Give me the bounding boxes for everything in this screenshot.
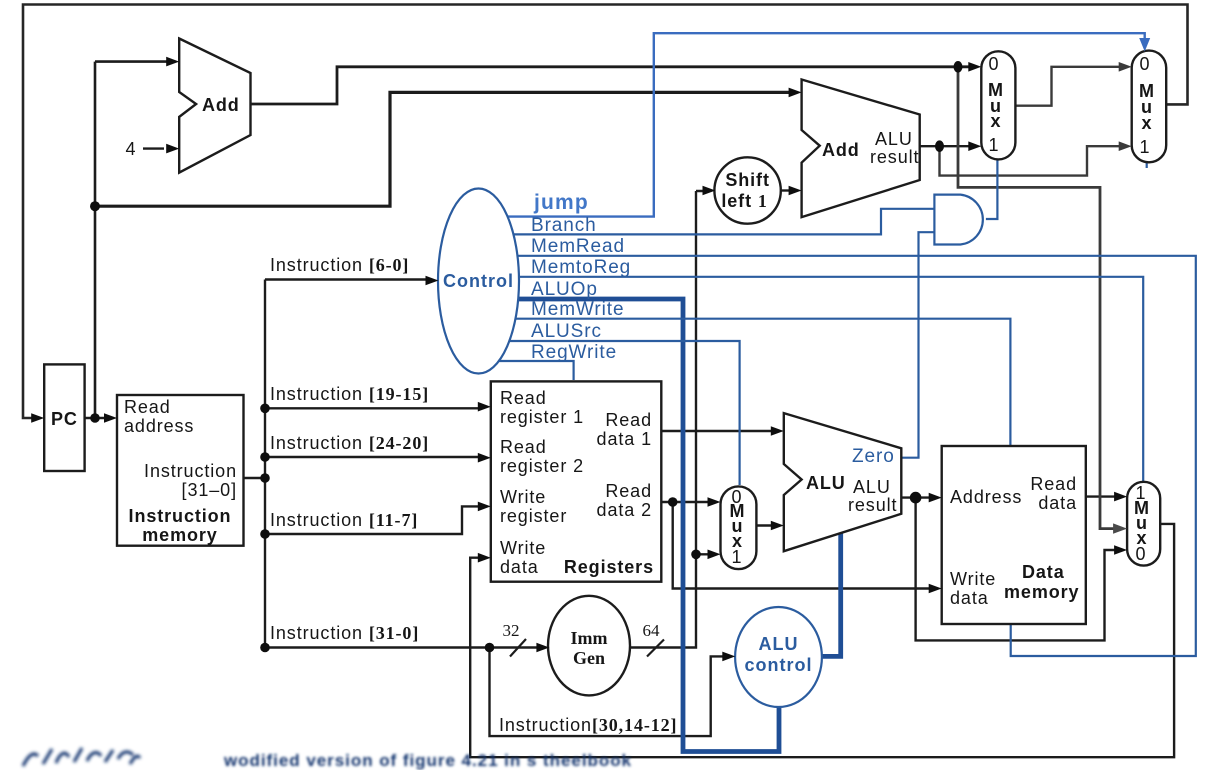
node Add2 result junction bbox=[935, 140, 944, 152]
svg-text:Instruction: Instruction bbox=[129, 506, 232, 526]
svg-text:Registers: Registers bbox=[564, 557, 654, 577]
svg-text:[31–0]: [31–0] bbox=[182, 480, 237, 500]
wire shift-left-1 to Add2 lower input bbox=[781, 189, 793, 191]
arrowhead into mux M1 input1 bbox=[968, 141, 981, 151]
arrowhead into writeback mux input0 bbox=[1114, 545, 1127, 555]
svg-text:Read: Read bbox=[500, 437, 547, 457]
arrowhead into ALU bottom input bbox=[771, 521, 784, 531]
wire gray PC+4 branch to writeback mux middle input bbox=[958, 67, 1119, 529]
wire PC-feedback loop (mux2 output, top, left side, into PC) bbox=[23, 5, 1188, 419]
wire AND gate output to mux M1 select bbox=[986, 160, 998, 219]
arrowhead into Control bbox=[426, 276, 439, 286]
ellipse Control unit bbox=[438, 189, 519, 374]
svg-text:Instruction [19-15]: Instruction [19-15] bbox=[270, 384, 429, 404]
wire Read data 1 to ALU bbox=[662, 430, 777, 432]
adder Add (PC+4) bbox=[179, 39, 250, 173]
arrowhead into ALU top input bbox=[771, 426, 784, 436]
svg-text:Data: Data bbox=[1022, 562, 1065, 582]
svg-text:data: data bbox=[950, 588, 989, 608]
svg-text:Read: Read bbox=[124, 397, 171, 417]
svg-text:64: 64 bbox=[643, 621, 661, 640]
arrowhead into mux M1 input0 bbox=[968, 62, 981, 72]
arrowhead into PC bbox=[31, 413, 44, 423]
wire Read data 2 to ALUSrc mux input0 bbox=[662, 501, 713, 503]
node imm 64 junction bbox=[691, 550, 701, 560]
svg-text:data: data bbox=[500, 557, 539, 577]
svg-text:Instruction [24-20]: Instruction [24-20] bbox=[270, 433, 429, 453]
arrowhead into Add top bbox=[166, 57, 179, 67]
wire Add2 result to mux M1 input1 bbox=[920, 145, 973, 147]
svg-text:x: x bbox=[1142, 113, 1153, 133]
mux M2 (jump mux) bbox=[1132, 51, 1167, 163]
arrowhead into Data memory Write data bbox=[929, 584, 942, 594]
svg-text:ALUSrc: ALUSrc bbox=[531, 321, 602, 342]
svg-text:RegWrite: RegWrite bbox=[531, 342, 617, 363]
ALU bbox=[784, 413, 902, 551]
svg-text:Read: Read bbox=[1030, 474, 1077, 494]
svg-text:MemtoReg: MemtoReg bbox=[531, 257, 631, 278]
wire Add output PC+4 to mux M1 input0 bbox=[251, 67, 974, 104]
arrowhead into Add2 top bbox=[789, 88, 802, 98]
svg-text:Read: Read bbox=[500, 388, 547, 408]
wire ALU control output to ALU bbox=[822, 533, 841, 656]
arrowhead into writeback mux input1 bbox=[1114, 492, 1127, 502]
svg-text:jump: jump bbox=[533, 191, 589, 214]
svg-text:x: x bbox=[991, 111, 1002, 131]
svg-text:Add: Add bbox=[202, 95, 240, 115]
svg-text:32: 32 bbox=[503, 621, 520, 640]
arrowhead into Read register 1 bbox=[478, 402, 491, 412]
svg-text:Write: Write bbox=[500, 538, 546, 558]
arrowhead into Data memory Address bbox=[929, 493, 942, 503]
svg-text:Instruction[30,14-12]: Instruction[30,14-12] bbox=[499, 715, 677, 735]
node ALU result junction bbox=[910, 492, 922, 504]
svg-text:wodified version of figure 4.2: wodified version of figure 4.21 in s the… bbox=[223, 751, 632, 770]
arrowhead gray into mux M2 input0 bbox=[1119, 62, 1132, 72]
arrowhead into Add2 bottom bbox=[789, 186, 802, 196]
svg-text:memory: memory bbox=[142, 525, 217, 545]
svg-text:ALU: ALU bbox=[853, 477, 891, 497]
wire writeback mux output to Registers Write data bbox=[470, 524, 1174, 757]
node instruction[11-7] junction bbox=[260, 529, 270, 539]
svg-text:register 1: register 1 bbox=[500, 407, 584, 427]
svg-text:Gen: Gen bbox=[573, 648, 605, 668]
node PC output junction bbox=[90, 413, 100, 423]
svg-text:0: 0 bbox=[989, 54, 1000, 74]
svg-text:Address: Address bbox=[950, 487, 1022, 507]
wire ALU result branch to writeback mux input0 bbox=[916, 498, 1119, 641]
wire Imm Gen output to shift-left and mux bbox=[630, 191, 707, 648]
wire Instruction[24-20] to Read register 2 bbox=[265, 456, 482, 458]
svg-text:ALUOp: ALUOp bbox=[531, 279, 598, 300]
svg-text:result: result bbox=[870, 147, 919, 167]
arrowhead into Write register bbox=[478, 502, 491, 512]
arrowhead into ALU control bbox=[722, 652, 735, 662]
svg-text:left 1: left 1 bbox=[721, 191, 767, 211]
arrowhead gray into mux M2 input1 bbox=[1119, 141, 1132, 151]
svg-text:MemRead: MemRead bbox=[531, 236, 625, 257]
node PC+4 junction bbox=[954, 61, 963, 73]
ellipse Imm Gen bbox=[548, 596, 630, 696]
wire Zero flag from ALU to AND gate bbox=[901, 232, 934, 458]
svg-text:data 2: data 2 bbox=[597, 500, 652, 520]
wire MemRead signal from Control to Data memory bbox=[516, 256, 1196, 656]
wire Branch signal from Control to AND gate bbox=[512, 209, 934, 235]
wire Instruction[6-0] to Control bbox=[265, 278, 430, 280]
svg-text:1: 1 bbox=[732, 547, 743, 567]
wire RegWrite signal from Control to Registers bbox=[495, 361, 574, 380]
svg-text:0: 0 bbox=[1136, 544, 1147, 564]
svg-text:result: result bbox=[848, 495, 897, 515]
wire ALU result to Data memory Address bbox=[901, 496, 934, 498]
svg-text:data 1: data 1 bbox=[597, 429, 652, 449]
wire slash 64-bit width mark bbox=[647, 640, 664, 657]
wire MemtoReg signal from Control to writeback mux select bbox=[518, 277, 1143, 481]
ellipse ALU control bbox=[735, 607, 822, 707]
wire Instruction[19-15] to Read register 1 bbox=[265, 407, 482, 409]
svg-text:Write: Write bbox=[950, 569, 996, 589]
svg-text:ALU: ALU bbox=[806, 473, 846, 493]
arrowhead blue jump into mux M2 top bbox=[1139, 38, 1150, 52]
wire Read data 2 branch to Data memory Write data bbox=[673, 502, 934, 589]
arrowhead into ALUSrc mux input0 bbox=[708, 497, 721, 507]
svg-text:Write: Write bbox=[500, 487, 546, 507]
wire instruction memory output to trunk bbox=[244, 477, 266, 479]
svg-text:MemWrite: MemWrite bbox=[531, 299, 624, 320]
svg-text:Instruction [11-7]: Instruction [11-7] bbox=[270, 510, 418, 530]
wire instruction trunk vertical bbox=[264, 280, 266, 648]
svg-text:Zero: Zero bbox=[852, 446, 895, 467]
svg-text:Control: Control bbox=[443, 271, 514, 291]
registers box bbox=[491, 381, 662, 581]
svg-text:control: control bbox=[745, 655, 813, 675]
wire Imm branch to ALUSrc mux input1 bbox=[696, 553, 713, 555]
wire gray mux M1 output to mux M2 input0 bbox=[1015, 67, 1123, 106]
mux M3 (writeback mux) bbox=[1127, 482, 1160, 566]
svg-text:Instruction [31-0]: Instruction [31-0] bbox=[270, 623, 419, 643]
svg-text:ALU: ALU bbox=[875, 129, 913, 149]
wire 4 into Add bbox=[143, 147, 164, 149]
svg-text:Read: Read bbox=[605, 481, 652, 501]
svg-text:address: address bbox=[124, 416, 194, 436]
wire MemWrite signal from Control to Data memory bbox=[514, 319, 1010, 445]
wire ALUOp thick signal from Control to ALU control bbox=[516, 299, 779, 752]
svg-text:Read: Read bbox=[605, 410, 652, 430]
caption blurred text middle bbox=[223, 751, 632, 770]
mux ALUSrc (0/1 before ALU) bbox=[721, 486, 757, 569]
svg-text:Shift: Shift bbox=[725, 170, 770, 190]
adder Add2 (branch target) bbox=[802, 80, 920, 218]
caption handwriting smudge left bbox=[23, 748, 140, 766]
wire Instruction[31-0] to Imm Gen bbox=[265, 646, 541, 648]
svg-text:data: data bbox=[1038, 493, 1077, 513]
arrowhead gray into writeback mux middle bbox=[1113, 523, 1127, 533]
arrowhead into instruction memory bbox=[104, 413, 117, 423]
node instruction[31-0] junction bbox=[260, 473, 270, 483]
svg-text:0: 0 bbox=[1140, 54, 1151, 74]
mux M1 (branch mux) bbox=[981, 51, 1015, 159]
wire jump signal from Control to mux M2 select bbox=[505, 33, 1145, 216]
svg-text:register: register bbox=[500, 506, 567, 526]
node instruction[24-20] junction bbox=[260, 452, 270, 462]
wire Instruction[11-7] to Write register bbox=[265, 506, 482, 534]
svg-text:Add: Add bbox=[822, 140, 860, 160]
wire gray Add2-result branch to mux M2 input1 bbox=[940, 146, 1124, 175]
arrowhead into shift left 1 bbox=[703, 186, 716, 196]
instruction memory box bbox=[117, 395, 244, 546]
wire PC to instruction memory bbox=[85, 417, 109, 419]
svg-text:PC: PC bbox=[51, 409, 78, 429]
wire slash 32-bit width mark bbox=[510, 639, 526, 657]
wire ALUSrc signal from Control to ALUSrc mux select bbox=[509, 341, 740, 485]
node instruction[31-0] lower junction bbox=[260, 643, 270, 653]
svg-text:4: 4 bbox=[126, 139, 137, 159]
wire select stub below mux M2 bbox=[1146, 162, 1148, 168]
svg-text:memory: memory bbox=[1004, 582, 1079, 602]
data memory box bbox=[942, 446, 1086, 624]
node read data 2 junction bbox=[668, 497, 678, 507]
wire ALUSrc mux output to ALU bbox=[756, 524, 776, 526]
svg-text:1: 1 bbox=[989, 135, 1000, 155]
svg-text:1: 1 bbox=[1140, 137, 1151, 157]
wire Instruction[30,14-12] to ALU control bbox=[490, 648, 728, 737]
wire PC to Add2 branch adder bbox=[95, 92, 793, 206]
arrowhead into ALUSrc mux input1 bbox=[708, 550, 721, 560]
node imm input junction bbox=[485, 643, 495, 653]
svg-text:ALU: ALU bbox=[759, 634, 799, 654]
node PC trunk junction bbox=[90, 201, 100, 211]
svg-text:Branch: Branch bbox=[531, 215, 597, 236]
arrowhead 4 into Add bottom bbox=[166, 144, 179, 154]
wire Data memory Read data to writeback mux input1 bbox=[1086, 495, 1119, 497]
svg-text:register 2: register 2 bbox=[500, 456, 584, 476]
AND gate (branch and zero) bbox=[934, 195, 982, 245]
svg-text:Instruction: Instruction bbox=[144, 461, 237, 481]
arrowhead into Imm Gen bbox=[536, 643, 549, 653]
arrowhead into Read register 2 bbox=[478, 453, 491, 463]
circle Shift left 1 bbox=[714, 157, 780, 223]
wire PC up trunk bbox=[95, 62, 171, 418]
register PC bbox=[44, 364, 84, 471]
svg-text:Imm: Imm bbox=[571, 628, 608, 648]
svg-text:Instruction [6-0]: Instruction [6-0] bbox=[270, 255, 409, 275]
node instruction[19-15] junction bbox=[260, 404, 270, 414]
arrowhead into Write data bbox=[478, 553, 491, 563]
